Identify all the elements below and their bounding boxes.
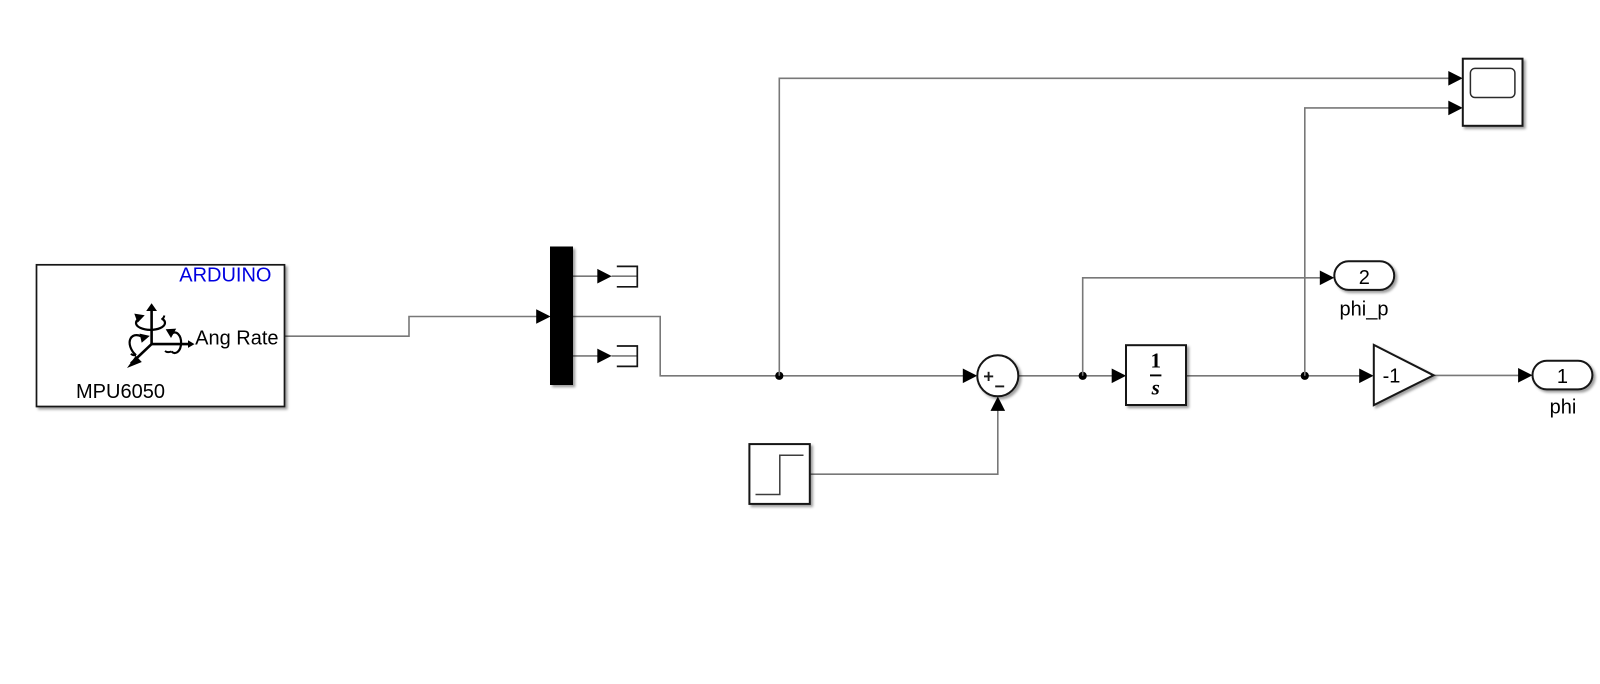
icon gyro axes <box>131 309 190 364</box>
arrowhead into Integrator <box>1112 369 1126 384</box>
wire: MPU6050 output to Demux <box>285 317 538 337</box>
arrowhead into sum block <box>963 369 977 384</box>
block Integrator <box>1126 345 1186 405</box>
node J3 <box>1301 372 1309 380</box>
wire: Gain output to outport 1 (phi) <box>1434 374 1520 376</box>
wire: T2 middle stem <box>612 355 638 357</box>
outport 1 <box>1533 361 1593 390</box>
block Terminator T2 <box>617 346 638 366</box>
svg-text:1: 1 <box>1150 349 1161 373</box>
block Gain <box>1374 345 1434 405</box>
arrowhead into Demux <box>536 309 550 324</box>
block Step <box>749 444 809 504</box>
arrowhead into Gain <box>1359 369 1373 384</box>
arrowhead into outport 1 <box>1518 368 1532 383</box>
svg-text:phi: phi <box>1550 397 1577 419</box>
step icon <box>756 455 804 494</box>
arrowhead into Scope input 1 <box>1448 71 1462 86</box>
svg-text:s: s <box>1151 376 1160 400</box>
svg-text:Ang Rate: Ang Rate <box>195 328 278 350</box>
block Terminator T1 <box>617 266 638 286</box>
svg-text:2: 2 <box>1359 267 1370 289</box>
wire: Demux out2 to sum junction (main signal) <box>573 317 964 376</box>
sum plus sign <box>984 372 1004 387</box>
wire: J3 up to Scope input 2 <box>1305 108 1449 376</box>
outport 2 <box>1334 261 1394 290</box>
arrowhead into T1 <box>597 269 611 284</box>
block Sum <box>977 355 1018 396</box>
block MPU6050 <box>37 265 285 407</box>
svg-text:-1: -1 <box>1383 366 1401 388</box>
wire: J2 up and right to outport 2 (phi_p) <box>1083 278 1321 376</box>
svg-text:1: 1 <box>1557 366 1568 388</box>
arrowhead into outport 2 <box>1320 271 1334 286</box>
wire: Step output to Sum bottom input <box>810 411 998 475</box>
svg-text:MPU6050: MPU6050 <box>76 381 165 403</box>
arrowhead into Scope input 2 <box>1448 101 1462 116</box>
block Demux <box>551 247 573 385</box>
svg-text:phi_p: phi_p <box>1340 299 1389 321</box>
svg-text:ARDUINO: ARDUINO <box>179 265 271 287</box>
scope screen <box>1470 68 1515 97</box>
node J1 <box>775 372 783 380</box>
wire: T1 middle stem <box>612 275 638 277</box>
wire: Integrator output to Gain <box>1186 375 1360 377</box>
arrowhead into Sum bottom <box>991 397 1006 411</box>
wire: Sum output to Integrator <box>1018 375 1112 377</box>
block Scope <box>1463 59 1523 126</box>
wire: J1 up to Scope input 1 <box>779 78 1449 376</box>
node J2 <box>1079 372 1087 380</box>
arrowhead into T2 <box>597 349 611 364</box>
wire: Demux out1 to Terminator T1 <box>573 275 599 277</box>
wire: Demux out3 to Terminator T2 <box>573 355 599 357</box>
